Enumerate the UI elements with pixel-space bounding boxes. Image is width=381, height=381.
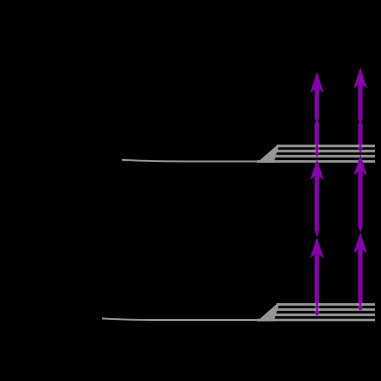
left arrow segment S4 head — [310, 72, 324, 93]
excited state vibrational level v=0 — [257, 160, 375, 163]
notch left shaft upper v=2 — [314, 150, 320, 153]
left arrow segment S1 shaft — [315, 254, 319, 315]
photon arrow right (two-photon ladder) — [354, 67, 368, 310]
ground state fan wedge — [257, 303, 279, 321]
right arrow segment S2 tail — [358, 226, 362, 232]
ground state vibrational level v=0 — [257, 319, 375, 322]
excited electronic state potential curve — [122, 160, 375, 162]
ground state vibrational level v=2 — [274, 308, 376, 311]
level-line notches pinching the photon shafts at crossings — [314, 146, 363, 310]
right arrow segment S3 — [358, 120, 362, 153]
right arrow segment S1 head — [354, 232, 368, 253]
notch right shaft lower v=3 — [357, 303, 363, 306]
right arrow segment S4 head — [354, 67, 368, 88]
left arrow segment S2 head — [310, 159, 324, 180]
left arrow segment S4 shaft — [315, 89, 319, 119]
excited state fan wedge — [257, 145, 279, 163]
right arrow segment S2 head — [354, 155, 368, 176]
right arrow segment S4 tail — [358, 120, 362, 124]
energy level lines — [102, 145, 375, 322]
notch left shaft lower v=2 — [314, 308, 320, 311]
ground electronic state potential curve — [102, 318, 375, 320]
notch left shaft lower v=3 — [314, 303, 320, 306]
excited state vibrational level v=3 — [277, 145, 376, 148]
excited state vibrational level v=2 — [274, 150, 376, 153]
left arrow segment S4 tail — [315, 119, 319, 123]
excited state vibrational level v=1 — [272, 155, 376, 158]
left arrow segment S2 tail — [315, 231, 319, 237]
photon arrow left (two-photon ladder) — [310, 72, 324, 316]
ground state vibrational level v=1 — [272, 313, 376, 316]
notch left shaft upper v=3 — [314, 145, 320, 148]
left arrow segment S2 shaft — [315, 176, 319, 231]
right arrow segment S1 shaft — [358, 250, 362, 311]
ground state vibrational level v=3 — [277, 303, 376, 306]
right arrow segment S4 shaft — [358, 85, 362, 120]
notch right shaft upper v=3 — [358, 145, 364, 148]
left arrow segment S1 head — [310, 237, 324, 258]
left arrow segment S3 — [315, 120, 319, 158]
right arrow segment S2 shaft — [358, 172, 362, 227]
